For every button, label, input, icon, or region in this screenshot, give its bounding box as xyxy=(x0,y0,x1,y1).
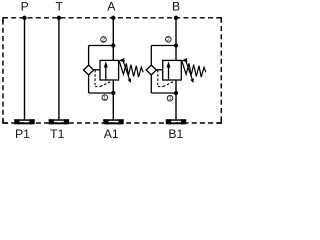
svg-text:B1: B1 xyxy=(168,127,183,140)
svg-text:1: 1 xyxy=(103,95,106,101)
svg-text:2: 2 xyxy=(102,37,105,43)
svg-text:1: 1 xyxy=(169,96,172,102)
svg-text:T: T xyxy=(55,0,63,14)
svg-text:P: P xyxy=(21,0,29,14)
svg-text:2: 2 xyxy=(167,37,170,43)
svg-text:A: A xyxy=(107,0,116,14)
svg-text:T1: T1 xyxy=(50,127,64,140)
svg-text:B: B xyxy=(172,0,180,14)
svg-text:A1: A1 xyxy=(104,127,119,140)
svg-text:P1: P1 xyxy=(15,127,30,140)
